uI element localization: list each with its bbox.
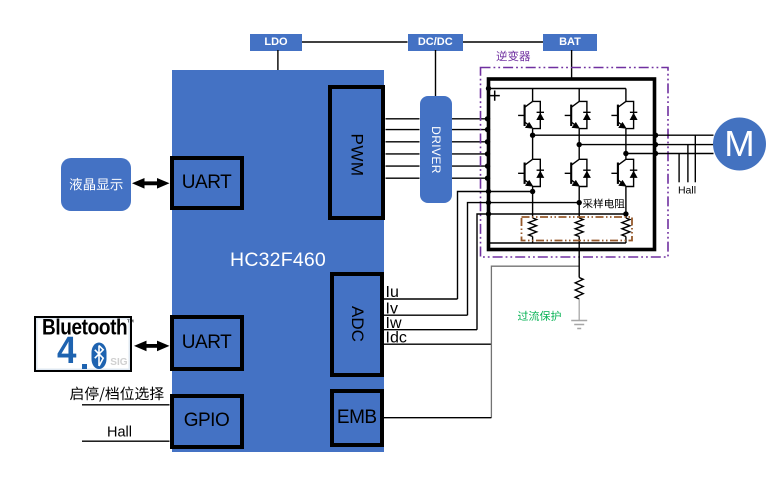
- wire Iv sense from leg: [468, 203, 580, 316]
- wire DRIVER-inverter 3: [452, 141, 487, 143]
- resistor R2 采样电阻: [575, 218, 583, 237]
- motor M: [713, 118, 766, 171]
- transistor Q5 (low side): [565, 159, 580, 185]
- wire PWM-DRIVER 4: [386, 153, 420, 155]
- diode D6 (anti-parallel): [626, 159, 637, 186]
- wire EMB output: [382, 417, 491, 419]
- wire BAT down to inverter: [571, 50, 573, 78]
- wire DC/DC down to DRIVER: [435, 50, 437, 96]
- wire resistor R2 to bottom rail: [578, 237, 580, 244]
- wire phase V to motor: [579, 144, 713, 146]
- wire Idc label line: [384, 343, 491, 345]
- wire Hall to GPIO: [82, 440, 170, 442]
- DC+ rail: [487, 88, 626, 90]
- label 过流保护: [518, 311, 561, 321]
- svg-text:Hall: Hall: [678, 184, 696, 196]
- wire leg2 upper lead: [578, 89, 580, 102]
- wire Iw sense from leg: [477, 214, 626, 330]
- wire phase W to motor: [626, 153, 714, 155]
- label 逆变器: [497, 51, 531, 62]
- transistor Q6 (low side): [611, 159, 626, 185]
- wire Iu label line: [384, 298, 458, 300]
- transistor Q1 (high side): [518, 101, 533, 127]
- block Bluetooth logo: [34, 316, 132, 372]
- inverter black box: [489, 79, 655, 250]
- block 液晶显示: [61, 158, 131, 212]
- diode D1 (anti-parallel): [533, 101, 544, 128]
- block EMB: [330, 389, 385, 447]
- wire leg1 lower lead: [532, 187, 534, 219]
- wire LDO to DC/DC: [302, 41, 408, 43]
- wire PWM-DRIVER 5: [386, 165, 420, 167]
- wire 启停/档位选择 to GPIO: [82, 404, 170, 406]
- diode D2 (anti-parallel): [579, 101, 590, 128]
- block UART 2: [170, 315, 244, 371]
- sampling resistors brown dashed box: [522, 217, 633, 241]
- MCU block HC32F460: [172, 70, 384, 452]
- wire hall sensor 2: [687, 145, 689, 183]
- label 液晶显示: [70, 178, 123, 191]
- diode D4 (anti-parallel): [533, 159, 544, 186]
- inverter purple dashed border 逆变器: [481, 68, 669, 258]
- block ADC: [330, 272, 385, 378]
- wire hall sensor 3: [678, 154, 680, 183]
- wire DRIVER-inverter 2: [452, 129, 487, 131]
- svg-text:Idc: Idc: [386, 330, 407, 347]
- wire Idc/EMB vertical: [491, 266, 579, 418]
- wire resistor R3 to bottom rail: [625, 237, 627, 244]
- resistor overcurrent 过流保护: [575, 278, 583, 300]
- wire hall sensor 1: [694, 135, 696, 182]
- wire DC/DC to BAT: [463, 41, 543, 43]
- arrow Bluetooth-UART: [145, 344, 160, 348]
- wire PWM-DRIVER 1: [386, 118, 420, 120]
- ground: [571, 321, 587, 329]
- node phase 3: [623, 151, 628, 156]
- block LDO: [250, 34, 302, 51]
- wire DRIVER-inverter 6: [452, 177, 487, 179]
- node phase 1: [530, 133, 535, 138]
- wire PWM-DRIVER 6: [386, 177, 420, 179]
- node phase 2: [577, 142, 582, 147]
- resistor R3 采样电阻: [622, 218, 630, 237]
- wire PWM-DRIVER 3: [386, 141, 420, 143]
- wire PWM-DRIVER 2: [386, 129, 420, 131]
- bottom rail: [487, 242, 626, 244]
- resistor R1 采样电阻: [529, 218, 537, 237]
- block UART 1: [170, 156, 244, 211]
- block PWM: [328, 85, 385, 220]
- wire Iu sense from leg: [458, 192, 533, 300]
- wire leg3 lower lead: [625, 187, 627, 219]
- block BAT: [543, 34, 597, 51]
- wire leg1 upper lead: [532, 89, 534, 102]
- wire DRIVER-inverter 1: [452, 118, 487, 120]
- wire Iw label line: [384, 329, 477, 331]
- label 采样电阻: [583, 199, 625, 209]
- wire resistor R1 to bottom rail: [532, 237, 534, 244]
- diode D3 (anti-parallel): [626, 101, 637, 128]
- wire resistor to ground: [578, 299, 580, 321]
- label 启停/档位选择: [70, 387, 164, 402]
- node sense 3: [623, 211, 628, 216]
- svg-text:Iu: Iu: [386, 284, 399, 301]
- node sense 2: [577, 200, 582, 205]
- transistor Q3 (high side): [611, 101, 626, 127]
- wire DRIVER-inverter 4: [452, 153, 487, 155]
- block DRIVER: [420, 96, 453, 203]
- wire LDO down to MCU: [277, 50, 279, 70]
- wire leg2 middle lead: [578, 129, 580, 160]
- wire leg3 middle lead: [625, 129, 627, 160]
- wire leg2 lower lead: [578, 187, 580, 219]
- transistor Q2 (high side): [565, 101, 580, 127]
- wire DRIVER-inverter 5: [452, 165, 487, 167]
- block GPIO: [170, 394, 244, 449]
- wire Iv label line: [384, 314, 468, 316]
- wire leg3 upper lead: [625, 89, 627, 102]
- diode D5 (anti-parallel): [579, 159, 590, 186]
- wire phase U to motor: [533, 134, 714, 136]
- arrow LCD-UART: [143, 181, 160, 185]
- wire leg1 middle lead: [532, 129, 534, 160]
- node sense 1: [530, 189, 535, 194]
- plus sign: [490, 91, 500, 101]
- svg-text:Hall: Hall: [107, 425, 132, 441]
- block DC/DC: [408, 34, 464, 51]
- wire inverter bottom to overcurrent resistor: [578, 243, 580, 278]
- svg-text:M: M: [724, 123, 754, 164]
- transistor Q4 (low side): [518, 159, 533, 185]
